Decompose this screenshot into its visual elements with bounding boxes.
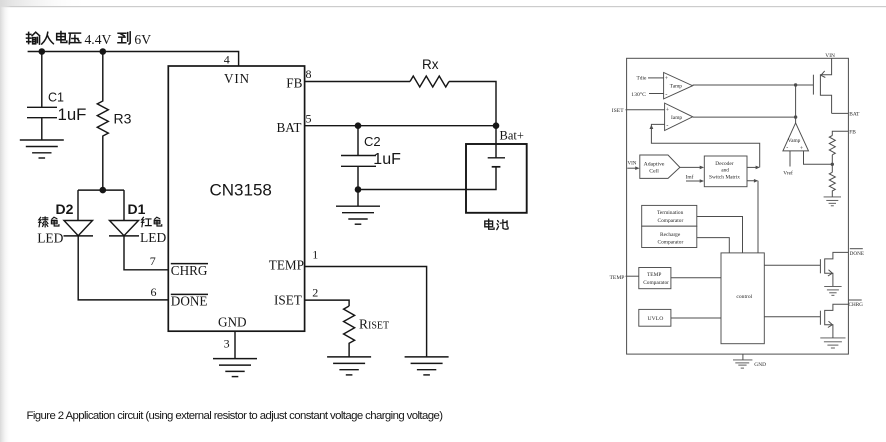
ground: under C1	[20, 140, 64, 158]
wire: ISET input	[626, 109, 665, 111]
wire: TEMP input	[626, 275, 639, 277]
wire: 130C input	[649, 93, 664, 95]
ground: IC GND	[213, 359, 257, 377]
label DONE (overline)	[850, 249, 864, 257]
svg-text:ISET: ISET	[274, 292, 302, 307]
svg-text:8: 8	[306, 67, 312, 81]
svg-text:Adaptive: Adaptive	[644, 161, 665, 167]
svg-text:6V: 6V	[134, 32, 151, 47]
wire: UVLO to control	[671, 317, 721, 319]
wire: GND pin 3	[234, 331, 236, 358]
wire: Iamp output	[693, 116, 796, 118]
capacitor C1	[27, 107, 57, 117]
svg-text:D1: D1	[128, 201, 146, 217]
node: rail-C1 junction	[39, 48, 46, 55]
svg-text:Rx: Rx	[422, 57, 439, 72]
svg-text:Termination: Termination	[657, 210, 684, 216]
svg-text:BAT: BAT	[277, 120, 302, 135]
wire: C2 to ground	[357, 190, 359, 207]
wire: divider middle	[831, 155, 833, 173]
svg-text:3: 3	[224, 336, 230, 350]
wire: Rx to Bat+ node	[449, 82, 496, 126]
svg-text:Cell: Cell	[649, 169, 659, 175]
svg-text:GND: GND	[218, 314, 247, 329]
label 绿色 LED	[37, 217, 63, 245]
wire: D1 cathode to CHRG pin	[124, 236, 168, 270]
svg-text:CHRG: CHRG	[171, 263, 208, 278]
svg-text:TEMP: TEMP	[610, 275, 625, 281]
wire: Vref to Vamp-	[789, 151, 791, 167]
svg-text:4: 4	[224, 53, 230, 67]
svg-text:1uF: 1uF	[58, 105, 87, 124]
label: input voltage 输入电压 4.4V 到 6V	[27, 32, 152, 47]
wire: C1 branch	[41, 52, 43, 141]
svg-text:and: and	[721, 168, 729, 174]
battery cell symbol	[488, 126, 505, 167]
wire+arrow: Imf into Decoder	[686, 180, 701, 182]
wire+arrow: VIN into Adaptive Cell	[627, 167, 636, 169]
wire: Vamp+ to divider tap	[804, 151, 833, 164]
wire: BAT pin to battery	[305, 125, 496, 127]
wire: top supply rail	[28, 52, 239, 67]
svg-text:Comparator: Comparator	[658, 218, 684, 224]
wire: Vamp output tie	[795, 85, 797, 123]
svg-text:-: -	[786, 146, 788, 152]
svg-text:Figure 2 Application circuit (: Figure 2 Application circuit (using exte…	[27, 410, 444, 422]
svg-text:+: +	[800, 146, 803, 152]
svg-text:C1: C1	[48, 90, 64, 104]
node: LED branch junction	[100, 187, 107, 194]
svg-text:4.4V: 4.4V	[85, 32, 112, 47]
wire: TEMP pin to ground	[305, 267, 427, 357]
op-amp Iamp	[665, 103, 693, 130]
svg-text:RISET: RISET	[359, 317, 389, 332]
resistor Rfb1 (internal divider top)	[829, 136, 835, 155]
svg-text:Decoder: Decoder	[715, 161, 733, 167]
resistor Rx	[410, 76, 449, 87]
svg-text:7: 7	[150, 254, 156, 268]
svg-text:DONE: DONE	[850, 251, 864, 257]
wire: BAT output	[832, 112, 849, 114]
block: Recharge Comparator	[642, 226, 697, 247]
wire: D2 cathode to DONE pin	[78, 236, 168, 300]
svg-text:R3: R3	[114, 110, 132, 126]
transistor Q3 CHRG driver	[764, 304, 848, 338]
svg-text:-: -	[666, 122, 668, 129]
wire: FB to Rx	[305, 81, 410, 83]
resistor R3	[97, 52, 108, 191]
svg-text:Vamp: Vamp	[788, 138, 801, 144]
wire+arrow: Adaptive Cell to Decoder	[680, 166, 701, 168]
block diagram outer boundary	[627, 58, 849, 354]
diode D1 (red LED)	[109, 190, 139, 236]
svg-text:VIN: VIN	[825, 53, 835, 59]
ground: under C2	[336, 206, 380, 224]
svg-text:2: 2	[312, 286, 318, 300]
ground: RISET	[327, 357, 371, 375]
svg-text:TEMP: TEMP	[647, 272, 661, 278]
node: rail-R3 junction	[100, 48, 107, 55]
node: BAT-C2 junction	[355, 122, 362, 129]
svg-text:1: 1	[312, 248, 318, 262]
block: Decoder and Switch Matrix	[704, 156, 747, 187]
label CHRG (overline)	[849, 300, 864, 308]
diode D2 (green LED)	[64, 190, 94, 236]
battery BT1 box	[466, 144, 527, 213]
ground: DONE driver	[824, 286, 841, 295]
svg-text:Tamp: Tamp	[670, 84, 683, 90]
svg-text:+: +	[665, 76, 669, 82]
svg-text:D2: D2	[56, 201, 74, 217]
svg-text:LED: LED	[37, 230, 63, 245]
svg-text:Imf: Imf	[686, 174, 694, 181]
node: Bat+ junction	[493, 122, 500, 129]
svg-text:-: -	[665, 91, 667, 98]
node: C2 bottom junction	[355, 186, 362, 193]
svg-text:Iamp: Iamp	[671, 115, 682, 121]
block: TEMP Comparator	[639, 268, 671, 289]
svg-text:LED: LED	[140, 230, 166, 245]
resistor Rfb2 (internal divider bottom)	[829, 172, 835, 197]
block: control	[721, 253, 764, 344]
ground: divider	[824, 197, 841, 206]
IC U1 CN3158 body	[168, 66, 304, 331]
scan artifact: top hairline	[0, 6, 886, 7]
svg-text:Vref: Vref	[783, 170, 793, 177]
svg-text:VIN: VIN	[628, 161, 637, 166]
wire+arrow: Decoder output to control	[747, 181, 758, 253]
wire: TEMP comparator to control	[671, 277, 721, 279]
svg-text:FB: FB	[849, 130, 856, 136]
op-amp Tamp	[664, 73, 693, 99]
node: Iamp output junction	[794, 115, 797, 118]
ground: TEMP	[405, 357, 449, 375]
svg-text:+: +	[666, 108, 670, 114]
ground: CHRG driver	[820, 338, 845, 348]
node: gate line junction	[794, 83, 797, 86]
svg-text:6: 6	[151, 285, 157, 299]
svg-text:ISET: ISET	[612, 108, 624, 114]
svg-text:CHRG: CHRG	[849, 302, 864, 308]
svg-text:130°C: 130°C	[631, 91, 646, 98]
node: divider tap	[831, 163, 834, 166]
wire: Iamp feedback loop	[651, 124, 759, 167]
arrowhead: feedback into Iamp-	[650, 125, 654, 129]
svg-text:DONE: DONE	[171, 294, 208, 309]
wire: Tamp output to pass gate	[693, 84, 814, 86]
wire: battery negative return	[358, 167, 496, 190]
svg-text:Bat+: Bat+	[500, 129, 524, 143]
wire: Tdie input	[648, 77, 664, 79]
svg-text:C2: C2	[364, 134, 381, 149]
block: Termination Comparator	[642, 205, 697, 226]
transistor Q1 pass PMOS	[813, 58, 831, 113]
wire: Termination to control	[697, 217, 743, 253]
wire: LED top rail	[78, 189, 124, 191]
svg-text:Tdie: Tdie	[637, 76, 647, 82]
wire: ISET pin	[305, 300, 350, 306]
svg-text:CN3158: CN3158	[210, 180, 272, 199]
svg-text:Comparator: Comparator	[658, 240, 684, 246]
svg-text:1uF: 1uF	[373, 151, 401, 168]
resistor RISET	[344, 306, 355, 357]
block: UVLO	[639, 309, 671, 326]
svg-text:FB: FB	[286, 75, 302, 90]
svg-text:Switch Matrix: Switch Matrix	[709, 175, 740, 181]
svg-text:GND: GND	[754, 362, 766, 368]
label 红色 LED	[140, 217, 166, 245]
transistor Q2 DONE driver	[764, 252, 848, 286]
svg-text:TEMP: TEMP	[269, 257, 304, 272]
svg-text:Recharge: Recharge	[660, 232, 681, 238]
svg-text:BAT: BAT	[849, 112, 860, 118]
wire: Recharge to control	[697, 238, 730, 253]
svg-text:control: control	[736, 294, 752, 300]
svg-text:Comparator: Comparator	[643, 280, 669, 286]
label 电池	[485, 219, 508, 229]
wire: block GND stub	[742, 354, 744, 360]
capacitor C2	[341, 126, 376, 190]
wire+arrow: Decoder output to feedback	[747, 166, 756, 168]
svg-text:5: 5	[306, 111, 312, 125]
wire: FB entry	[832, 131, 848, 135]
op-amp Vamp (output up)	[783, 123, 809, 152]
svg-text:VIN: VIN	[224, 71, 250, 86]
block: Adaptive Cell	[640, 155, 680, 178]
ground: block GND	[733, 360, 752, 368]
svg-text:UVLO: UVLO	[648, 316, 664, 322]
scan artifact: left edge shading	[0, 0, 11, 442]
